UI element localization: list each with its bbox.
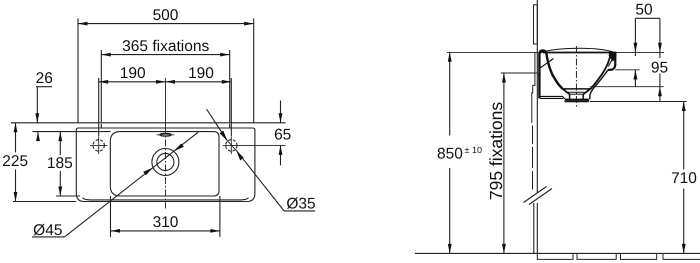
apron bottom ext line [615,69,639,71]
svg-text:185: 185 [47,155,73,172]
dim 225 [14,123,18,202]
svg-text:500: 500 [153,7,179,24]
wall line [536,0,538,193]
bowl bottom extension line [56,195,80,197]
svg-text:Ø45: Ø45 [33,222,62,239]
far rim arc (projection) [541,48,614,52]
underside to wall [538,96,540,99]
fixation tick right [229,124,231,128]
interior lower-left curve [553,75,563,89]
center line vertical (dash-dot) [165,78,167,127]
drain plate [565,99,589,101]
svg-text:95: 95 [651,60,668,77]
svg-text:225: 225 [2,153,28,170]
svg-text:710: 710 [671,170,697,187]
floor tiles [537,253,700,259]
dims 190 + 190 [99,78,232,137]
dim 795 fixations [502,73,506,253]
dim 710 [682,102,686,254]
dim 310 [111,196,220,237]
center line of drain [575,46,577,109]
washbasin rim outline [76,128,255,202]
wall double line bottom [533,203,535,253]
front apron outer [608,53,615,70]
leader Ø35 [207,109,316,211]
dim 65 [279,101,283,166]
tap hole right Ø35 [223,137,286,154]
exterior shell front [590,70,608,99]
dim 185 [58,132,62,196]
svg-text:365 fixations: 365 fixations [122,38,209,55]
svg-text:65: 65 [274,126,291,143]
dim 850 [448,52,452,253]
hatch front [608,58,613,67]
interior right wall [591,53,611,89]
svg-text:50: 50 [635,2,653,19]
rim bottom extension line [13,201,76,203]
svg-text:26: 26 [36,70,53,87]
dim 26 [35,87,52,141]
floor line [415,252,700,254]
wall line [11,122,286,124]
fixation line [501,72,538,74]
bowl top extension line [33,131,111,133]
leader Ø45 [32,132,198,237]
underside line (710) [590,101,687,103]
drain funnel [563,89,570,94]
dim 500 [78,19,254,123]
back edge lower [538,74,540,96]
svg-text:310: 310 [153,214,179,231]
wall break symbol [524,187,547,203]
svg-text:850: 850 [437,146,463,163]
hatch back [540,59,554,69]
front rim wedge [609,52,617,62]
rim reference line [447,51,664,53]
svg-text:190: 190 [188,65,214,82]
drain hole Ø45 [152,149,179,176]
back rim arch [539,51,552,77]
bowl outline [110,132,219,196]
wall aux strips [534,5,538,44]
overflow slot [157,133,175,136]
dims 50 / 95 [634,18,662,101]
interior bottom flat [562,88,592,90]
fixation tick left [100,124,102,128]
svg-text:190: 190 [120,65,146,82]
svg-text:± 10: ± 10 [465,145,482,155]
basin section [539,46,616,109]
dim 365 fixations [101,50,229,123]
rim inner front edge [83,198,249,200]
svg-text:795 fixations: 795 fixations [486,102,506,201]
rim top cut line [543,52,612,54]
svg-text:Ø35: Ø35 [286,195,315,212]
tap hole left Ø35 [90,137,108,154]
